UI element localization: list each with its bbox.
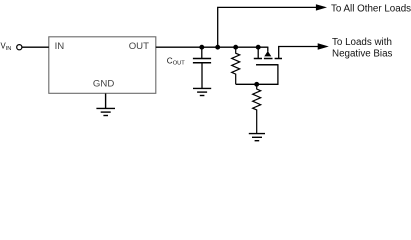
resistor R1 [232,47,240,84]
node dot B (top branch) [215,45,220,50]
transistor Q1 channel bar left [254,58,262,60]
svg-text:To Loads with: To Loads with [332,37,392,48]
wire to top rail [218,7,317,47]
transistor Q1 channel bar right [275,58,282,60]
transistor Q1 drain lead [257,47,259,58]
svg-text:Negative Bias: Negative Bias [332,49,393,60]
wire bottom (gate net) [236,65,278,85]
node dot A (COUT) [199,45,204,50]
ground below COUT [193,88,211,95]
ground below box [96,94,115,116]
svg-text:COUT: COUT [167,56,185,66]
source lead wire to negative bias loads [279,47,318,59]
svg-text:IN: IN [55,41,65,52]
node dot E (divider mid) [254,82,259,87]
svg-text:OUT: OUT [129,41,149,52]
resistor R2 [253,84,261,133]
svg-text:VIN: VIN [1,41,12,52]
regulator box U1 [49,37,156,94]
arrowhead to loads with negative bias [318,43,329,49]
svg-text:GND: GND [93,79,114,90]
svg-text:To All Other Loads: To All Other Loads [331,4,411,15]
node dot C (R1) [233,45,238,50]
body diode stem [267,47,269,52]
transistor Q1 gate line [256,64,278,66]
capacitor COUT [193,48,211,89]
wire VIN to IN [22,46,49,48]
arrowhead to all other loads [316,4,327,10]
transistor Q1 channel bar middle [264,58,273,60]
ground below R2 [249,134,265,141]
node dot D (transistor) [256,45,261,50]
body diode D1 [264,51,271,56]
input terminal circle [17,45,22,50]
wire OUT rail [156,46,268,48]
